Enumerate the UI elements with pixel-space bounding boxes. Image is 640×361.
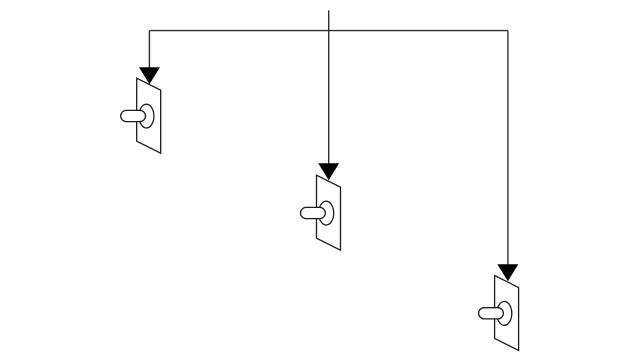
wire: left drop [148,31,150,69]
switch plate S3 [495,276,519,351]
switch boss (ellipse) S1 [139,104,154,128]
switch plate S2 [317,175,341,250]
switch lever S3 [479,308,504,319]
wire: vertical stub from top into bus junction [328,10,330,30]
toggle switch S2 [301,175,341,250]
wire: middle drop [328,31,330,165]
switch boss (ellipse) S3 [497,302,512,326]
switch lever S1 [121,110,146,121]
arrowhead: left drop [139,67,160,84]
toggle switch S3 [479,276,519,351]
arrowhead: middle drop [318,163,339,180]
wire: right drop [507,31,509,266]
switch lever S2 [301,207,326,218]
switch plate S1 [137,78,161,153]
arrowhead: right drop [497,264,518,281]
toggle switch S1 [121,78,161,153]
wire: horizontal bus [149,30,508,32]
switch boss (ellipse) S2 [319,201,334,225]
